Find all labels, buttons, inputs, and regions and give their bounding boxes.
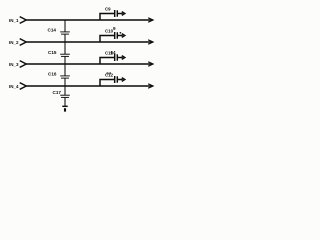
wire row 3 [26,63,152,65]
output arrow OUT1 [148,18,153,22]
net label row 3 [107,70,112,75]
svg-text:9: 9 [113,26,116,31]
svg-text:C15: C15 [48,50,57,55]
svg-text:IN_4: IN_4 [9,84,19,89]
svg-text:C10: C10 [105,29,114,34]
input port IN_2 [9,39,26,46]
ground [62,106,67,111]
svg-text:C16: C16 [48,71,57,76]
branch capacitor C12 (row 4) [100,73,125,86]
svg-text:IN_1: IN_1 [9,18,19,23]
input port IN_3 [9,61,26,68]
capacitor C15 (between row 2 and row 3) [48,42,70,64]
svg-text:C9: C9 [105,7,111,12]
svg-text:C11: C11 [105,51,113,56]
net label row 1 [113,26,121,34]
capacitor C17 (row 4 to ground) [53,86,70,106]
svg-text:C17: C17 [53,90,62,95]
input port IN_1 [9,17,26,24]
svg-text:C12: C12 [105,73,114,78]
branch capacitor C9 (row 1) [100,7,125,20]
net label row 2 [111,50,117,55]
wire row 2 [26,41,152,43]
svg-text:C14: C14 [48,28,57,33]
branch capacitor C10 (row 2) [100,29,125,42]
wire row 1 [26,19,152,21]
capacitor C16 (between row 3 and row 4) [48,64,70,86]
capacitor C14 (between row 1 and row 2) [48,20,70,42]
output arrow OUT3 [148,62,153,66]
svg-text:IN_2: IN_2 [9,40,19,45]
input port IN_4 [9,83,26,90]
wire row 4 [26,85,152,87]
output arrow OUT2 [148,40,153,44]
output arrow OUT4 [148,84,153,88]
branch capacitor C11 (row 3) [100,51,125,64]
svg-text:IN_3: IN_3 [9,62,19,67]
